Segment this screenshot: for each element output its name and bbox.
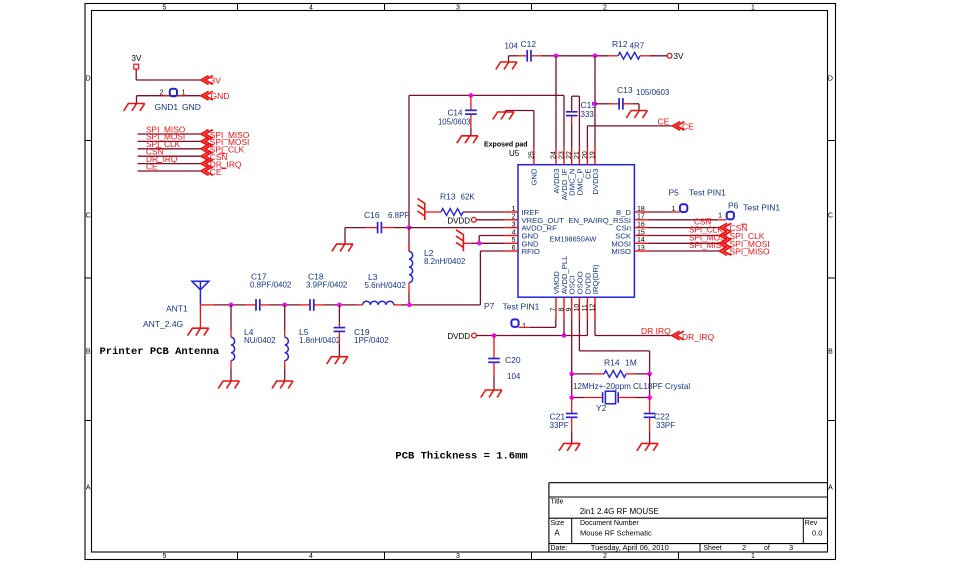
connector GND1 pin leads [162, 95, 186, 97]
capacitor C22 [644, 398, 675, 444]
svg-text:1: 1 [751, 553, 755, 560]
wire to AVDD_RF [409, 227, 504, 229]
op-amp U5 EM198650AW IC body [518, 165, 634, 298]
svg-text:3V: 3V [211, 75, 222, 85]
wire GND pins 4 5 [463, 236, 504, 244]
pin 11 DVDD [582, 272, 593, 318]
pin 19 DVDD3 [590, 148, 601, 195]
svg-text:4: 4 [512, 229, 516, 236]
pin 15 SCK [615, 229, 648, 240]
wire net SPI_CLK [649, 235, 720, 237]
svg-text:C14: C14 [447, 109, 462, 118]
pin 7 VMOD [551, 271, 562, 319]
port DVDD bottom [447, 332, 476, 341]
pin 24 AVDD3 [551, 148, 562, 194]
capacitor C13 [595, 85, 670, 111]
svg-text:12MHz+-20ppm CL18PF Crystal: 12MHz+-20ppm CL18PF Crystal [573, 382, 690, 391]
wire DVDD rail [476, 335, 587, 337]
off-page connector SPI_MOSI [201, 137, 249, 147]
svg-text:C20: C20 [505, 355, 521, 365]
wire OSCI [571, 319, 573, 374]
ground GND pins [456, 230, 463, 252]
svg-text:2: 2 [742, 543, 746, 552]
net label CSN [694, 218, 712, 227]
ground under antenna [188, 328, 209, 335]
svg-text:33PF: 33PF [550, 421, 569, 430]
pin 12 IRQ(DR) [590, 264, 601, 319]
svg-text:A: A [554, 529, 560, 538]
svg-text:SPI_MISO: SPI_MISO [730, 247, 771, 257]
svg-text:11: 11 [582, 304, 589, 311]
capacitor C16 [345, 210, 409, 233]
off-page connector CSN [720, 223, 748, 233]
wire AVDD rail [409, 95, 564, 228]
node junction [562, 333, 567, 338]
svg-text:CE: CE [682, 122, 694, 132]
node junction [593, 54, 598, 59]
resistor R14 [572, 358, 650, 378]
wire to IREF [463, 211, 504, 213]
svg-text:P5: P5 [669, 188, 680, 198]
node junction [407, 303, 412, 308]
capacitor C12 [505, 39, 543, 62]
svg-text:RFIO: RFIO [522, 247, 540, 256]
pin 1 IREF [504, 206, 539, 217]
svg-text:C21: C21 [550, 412, 566, 422]
svg-text:10: 10 [574, 304, 581, 312]
net label SPI_CLK [146, 139, 181, 149]
svg-text:R14: R14 [604, 358, 620, 368]
svg-text:105/0603: 105/0603 [636, 88, 670, 97]
pin 21 DMC_P [574, 148, 585, 196]
border frame [85, 4, 836, 561]
svg-text:1: 1 [182, 90, 186, 97]
svg-text:5: 5 [512, 237, 516, 244]
wire RFIO [409, 251, 504, 305]
svg-text:of: of [764, 545, 770, 552]
ground under C16 [332, 244, 353, 251]
svg-text:NU/0402: NU/0402 [244, 336, 276, 345]
wire antenna to ground [199, 305, 201, 328]
label exposed pad [484, 142, 528, 159]
svg-text:333: 333 [581, 110, 595, 119]
svg-text:C16: C16 [364, 210, 380, 220]
wire RF line [200, 304, 246, 306]
svg-text:Title: Title [551, 499, 564, 506]
pin 17 EN_PA/IRQ_RSSI [568, 214, 648, 225]
svg-text:6.8PF: 6.8PF [388, 211, 409, 220]
ground at C12 [496, 56, 518, 70]
wire AVDD_IF [563, 95, 565, 147]
svg-text:3V: 3V [132, 54, 142, 63]
off-page connector CE [673, 122, 695, 132]
off-page connector DR_IRQ [201, 159, 242, 169]
svg-text:EM198650AW: EM198650AW [550, 234, 597, 243]
svg-text:24: 24 [551, 151, 558, 159]
svg-text:C: C [86, 213, 91, 220]
wire GND [137, 96, 202, 104]
svg-text:5: 5 [163, 553, 167, 560]
svg-text:105/0603: 105/0603 [438, 118, 471, 127]
svg-text:13: 13 [637, 245, 645, 252]
svg-text:CE: CE [210, 167, 222, 177]
pin 3 AVDD_RF [504, 221, 557, 232]
svg-text:A: A [828, 485, 833, 492]
svg-text:0.0: 0.0 [812, 528, 822, 537]
svg-text:Size: Size [551, 520, 565, 527]
svg-text:25: 25 [528, 151, 535, 159]
wire [571, 124, 573, 148]
title block [549, 483, 828, 552]
wire to 3V port [650, 55, 667, 57]
wire 3V [136, 69, 201, 80]
svg-text:PCB Thickness = 1.6mm: PCB Thickness = 1.6mm [395, 451, 527, 463]
svg-text:1M: 1M [625, 358, 637, 368]
node junction [569, 395, 574, 400]
antenna ANT1 [143, 281, 209, 329]
port DVDD [447, 216, 476, 225]
svg-text:Test PIN1: Test PIN1 [743, 202, 780, 212]
ground under C20 [481, 390, 502, 397]
svg-text:8: 8 [559, 308, 566, 312]
svg-text:4: 4 [309, 553, 313, 560]
svg-text:14: 14 [637, 237, 645, 244]
pin 9 OSCI [566, 276, 577, 319]
svg-text:0.8PF/0402: 0.8PF/0402 [250, 281, 292, 290]
svg-text:GND: GND [530, 168, 539, 186]
svg-text:1PF/0402: 1PF/0402 [354, 336, 389, 345]
off-page connector SPI_CLK [720, 231, 765, 241]
svg-text:Tuesday, April 06, 2010: Tuesday, April 06, 2010 [591, 543, 669, 552]
node junction [554, 54, 559, 59]
net label SPI_MISO [146, 124, 186, 134]
svg-text:DR_IRQ: DR_IRQ [682, 332, 715, 342]
ground exposed pad [493, 111, 514, 120]
wire DMC_N DMC_P [572, 96, 580, 148]
ground under L4 [218, 381, 239, 388]
svg-text:A: A [86, 485, 91, 492]
svg-text:104: 104 [505, 41, 519, 50]
node junction [469, 93, 474, 98]
svg-text:6: 6 [512, 245, 516, 252]
off-page connector CSN [201, 152, 227, 162]
pin 10 OSOO [574, 271, 585, 318]
svg-text:DVDD: DVDD [447, 216, 470, 225]
svg-text:3: 3 [456, 553, 460, 560]
net label CE [658, 117, 670, 127]
svg-text:CE: CE [658, 117, 670, 127]
inductor L3 [357, 272, 409, 305]
svg-text:P7: P7 [484, 301, 495, 311]
test point P5 [649, 188, 727, 213]
off-page connector DR_IRQ [672, 331, 715, 342]
svg-text:Rev: Rev [805, 520, 818, 527]
svg-text:Printer PCB Antenna: Printer PCB Antenna [100, 346, 220, 358]
wire VMOD [555, 319, 557, 328]
wire 3V rail [542, 55, 608, 57]
svg-text:DVDD3: DVDD3 [591, 169, 600, 195]
wire net SPI_CLK [138, 148, 201, 150]
pin 14 MOSI [611, 237, 648, 248]
inductor L5 [285, 305, 341, 381]
pin 6 RFIO [504, 245, 540, 256]
capacitor C20 [488, 336, 521, 391]
svg-text:15: 15 [637, 229, 645, 236]
svg-text:22: 22 [566, 151, 573, 159]
svg-text:D: D [828, 76, 833, 83]
svg-text:Y2: Y2 [596, 403, 607, 413]
wire net SPI_MOSI [649, 242, 720, 244]
net label SPI_MOSI [689, 233, 728, 242]
resistor R12 [608, 39, 650, 59]
svg-text:R12: R12 [612, 39, 628, 49]
svg-text:2: 2 [603, 553, 607, 560]
pin 16 CSn [616, 221, 648, 232]
svg-text:5.6nH/0402: 5.6nH/0402 [365, 281, 407, 290]
svg-text:DR IRQ: DR IRQ [641, 326, 671, 336]
svg-text:19: 19 [590, 151, 597, 159]
wire C16 to ground [344, 228, 346, 245]
svg-text:Test PIN1: Test PIN1 [689, 188, 726, 198]
node junction [569, 372, 574, 377]
wire net SPI_MOSI [138, 140, 201, 142]
svg-text:21: 21 [574, 151, 581, 159]
svg-text:C12: C12 [521, 39, 537, 49]
wire net SPI_MISO [649, 250, 720, 252]
svg-text:8.2nH/0402: 8.2nH/0402 [424, 257, 466, 266]
net label DR_IRQ [146, 154, 178, 164]
ground under C14 [457, 136, 478, 143]
svg-text:2in1 2.4G RF MOUSE: 2in1 2.4G RF MOUSE [580, 507, 659, 516]
svg-text:GND1: GND1 [155, 102, 179, 112]
svg-text:Exposed pad: Exposed pad [484, 142, 528, 149]
wire CE [587, 126, 672, 148]
node junction [593, 102, 598, 107]
pin 5 GND [504, 237, 539, 248]
inductor L2 [409, 228, 466, 305]
wire net SPI_MISO [138, 133, 201, 135]
wire net CSN [649, 227, 720, 229]
net label SPI_MOSI [146, 132, 185, 142]
net label SPI_MISO [689, 241, 728, 250]
off-page connector 3V [201, 75, 221, 85]
svg-text:C22: C22 [654, 412, 670, 422]
svg-text:IRQ(DR): IRQ(DR) [591, 264, 600, 294]
svg-text:DVDD: DVDD [447, 332, 470, 341]
svg-text:C13: C13 [617, 85, 633, 95]
svg-text:R13: R13 [440, 192, 456, 202]
wire net CE [138, 170, 201, 172]
svg-text:1: 1 [718, 213, 722, 220]
wire DVDD pin [586, 319, 588, 336]
svg-text:U5: U5 [509, 149, 520, 158]
svg-text:P6: P6 [728, 201, 739, 211]
test point P7 [484, 301, 556, 330]
test point P6 [649, 201, 781, 220]
wire to VREG_OUT [476, 219, 504, 221]
svg-text:C: C [828, 213, 833, 220]
svg-text:D: D [86, 76, 91, 83]
node junction [647, 372, 652, 377]
node junction [477, 241, 482, 246]
node junction [407, 225, 412, 230]
capacitor C15 [566, 100, 596, 124]
svg-text:ANT1: ANT1 [166, 304, 188, 314]
svg-text:Mouse RF Schematic: Mouse RF Schematic [580, 528, 652, 537]
wire net CSN [138, 155, 201, 157]
svg-text:2: 2 [512, 214, 516, 221]
inductor L4 [231, 305, 276, 381]
label printer pcb antenna [100, 346, 220, 358]
svg-text:104: 104 [507, 372, 521, 381]
node junction [337, 303, 342, 308]
pin 8 AVDD_PLL [559, 255, 570, 319]
svg-text:1.8nH/0402: 1.8nH/0402 [299, 336, 341, 345]
capacitor C19 [334, 305, 390, 357]
svg-text:1: 1 [751, 4, 755, 11]
wire net DR_IRQ [138, 163, 201, 165]
capacitor C21 [550, 398, 578, 444]
svg-text:3: 3 [512, 221, 516, 228]
pin 4 GND [504, 229, 539, 240]
connector GND1 [155, 89, 201, 112]
ground under C19 [327, 357, 348, 364]
resistor R13 [425, 192, 476, 216]
svg-text:Sheet: Sheet [703, 545, 721, 552]
wire OSOO [579, 319, 649, 374]
svg-text:5: 5 [163, 4, 167, 11]
svg-text:4: 4 [309, 4, 313, 11]
net label SPI_CLK [689, 226, 723, 235]
ground [124, 104, 145, 111]
port 3V right [667, 52, 684, 61]
svg-text:CE: CE [146, 161, 158, 171]
ground under C13 [626, 111, 647, 118]
wire AVDD_PLL [563, 319, 565, 336]
svg-text:GND: GND [182, 102, 201, 112]
svg-text:ANT_2.4G: ANT_2.4G [143, 319, 183, 329]
svg-text:23: 23 [559, 151, 566, 159]
svg-text:Date:: Date: [551, 545, 568, 552]
wire crystal rails [572, 374, 650, 398]
svg-text:20: 20 [582, 151, 589, 159]
wire AVDD3 to 3V [555, 56, 557, 148]
svg-text:16: 16 [637, 221, 645, 228]
label pcb thickness [395, 451, 527, 463]
pin 20 CE [582, 148, 593, 179]
node junction [492, 333, 497, 338]
svg-text:2: 2 [160, 90, 164, 97]
wire DVDD3 to 3V [594, 56, 596, 148]
pin 18 B_D [616, 206, 648, 217]
net label CSN [146, 147, 164, 157]
svg-text:4R7: 4R7 [630, 42, 645, 51]
svg-text:1: 1 [522, 323, 526, 330]
capacitor C17 [246, 271, 300, 310]
svg-text:18: 18 [637, 206, 645, 213]
wire exposed pad to pin 25 [506, 111, 534, 148]
svg-text:3: 3 [456, 4, 460, 11]
off-page connector SPI_CLK [201, 145, 245, 155]
crystal Y2 [572, 382, 691, 413]
off-page connector CE [201, 167, 226, 177]
net label DR IRQ [641, 326, 671, 336]
svg-text:1: 1 [512, 206, 516, 213]
svg-text:3: 3 [789, 543, 793, 552]
svg-text:62K: 62K [461, 193, 476, 202]
pin 2 VREG_OUT [504, 214, 564, 225]
svg-text:Document Number: Document Number [580, 520, 639, 527]
wire IRQ DR [595, 319, 672, 336]
svg-text:MISO: MISO [611, 247, 631, 256]
capacitor C18 [300, 271, 357, 310]
pin 23 AVDD_IF [559, 148, 570, 201]
net label CE [146, 161, 162, 171]
ground under L5 [272, 381, 293, 388]
off-page connector SPI_MISO [720, 247, 771, 257]
svg-text:9: 9 [566, 308, 573, 312]
svg-text:3.9PF/0402: 3.9PF/0402 [306, 281, 348, 290]
ground R13 [417, 199, 424, 221]
off-page connector SPI_MOSI [720, 239, 770, 249]
svg-text:GND: GND [211, 91, 230, 101]
svg-text:1: 1 [672, 206, 676, 213]
svg-text:17: 17 [637, 214, 645, 221]
pin 22 DMC_N [566, 148, 577, 196]
svg-text:B: B [828, 349, 833, 356]
port 3V top-left [132, 54, 142, 69]
off-page connector SPI_MISO [201, 130, 250, 140]
svg-text:Test PIN1: Test PIN1 [503, 301, 540, 311]
node junction [229, 303, 234, 308]
capacitor C14 [438, 95, 477, 128]
pin 25 GND [528, 148, 538, 186]
svg-text:2: 2 [603, 4, 607, 11]
node junction [282, 303, 287, 308]
ground under C22 [637, 443, 658, 450]
ground under C21 [559, 443, 580, 450]
svg-text:B: B [86, 349, 91, 356]
pin 13 MISO [611, 245, 648, 256]
wire [470, 128, 472, 136]
svg-text:12: 12 [590, 304, 597, 312]
svg-text:33PF: 33PF [656, 421, 675, 430]
off-page connector GND [201, 91, 229, 101]
svg-text:7: 7 [551, 308, 558, 312]
node junction [647, 395, 652, 400]
svg-text:3V: 3V [674, 52, 684, 61]
